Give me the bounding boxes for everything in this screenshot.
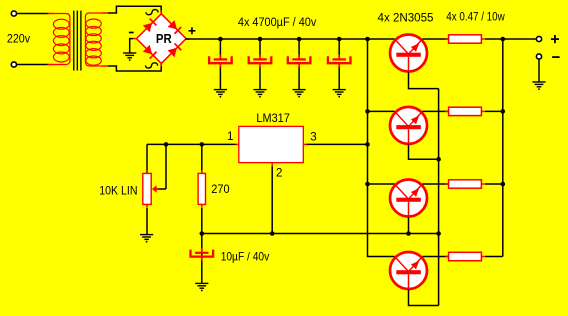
- pin 2 red stub: [271, 162, 273, 167]
- node junction output rail row1: [501, 37, 506, 42]
- wire branch to Q2 collector: [368, 110, 395, 112]
- svg-text:1: 1: [227, 130, 233, 143]
- wire pot top to pin1 wire: [146, 144, 148, 173]
- wire secondary bottom to bridge AC2: [108, 63, 161, 71]
- potentiometer RV1 10K LIN body: [143, 170, 151, 208]
- svg-text:3: 3: [310, 130, 316, 143]
- terminal J4 output minus: [536, 54, 541, 59]
- AC symbol near bridge top node: [146, 10, 158, 15]
- wire Q3 base: [408, 217, 410, 234]
- bridge diode D1 (left to top): [143, 19, 157, 33]
- bridge diode D4 (bottom to right): [168, 43, 182, 57]
- node junction cap C1 on rail: [218, 37, 223, 42]
- wire rail to C2: [259, 39, 261, 56]
- svg-text:220v: 220v: [7, 31, 30, 45]
- wire pot bottom to ground: [146, 208, 148, 235]
- node junction pin3 on bus: [365, 142, 370, 147]
- resistor R3 0.47 ohm: [445, 180, 485, 188]
- capacitor C1 4700uF: [209, 55, 232, 68]
- wire Q1 base: [409, 72, 439, 89]
- wire branch to Q3 collector: [368, 183, 395, 185]
- wire Q3 emitter to R3: [422, 183, 448, 185]
- label 4x 0.47 / 10w: [446, 10, 505, 24]
- node junction Q2 collector branch: [365, 109, 370, 114]
- svg-text:10K LIN: 10K LIN: [99, 184, 137, 198]
- svg-text:PR: PR: [156, 31, 172, 46]
- transistor Q1 2N3055: [390, 35, 427, 73]
- transformer TR1 core: [74, 11, 81, 71]
- svg-text:270: 270: [211, 182, 230, 196]
- transistor Q3 2N3055: [390, 180, 427, 218]
- bridge rectifier PR body: [137, 14, 187, 64]
- bridge lead stub top: [160, 11, 162, 15]
- label LM317: [256, 111, 289, 125]
- terminal J1 (mains input top): [11, 11, 16, 16]
- capacitor C2 4700uF: [249, 55, 272, 68]
- label output plus: [551, 35, 559, 43]
- transformer TR1 secondary winding: [85, 13, 108, 66]
- terminal J2 (mains input bottom): [11, 62, 16, 67]
- svg-text:4x 4700µF / 40v: 4x 4700µF / 40v: [238, 15, 317, 29]
- wire C3 to ground: [298, 68, 300, 90]
- transistor Q4 2N3055: [390, 252, 427, 290]
- label PR: [156, 31, 172, 46]
- resistor R1 0.47 ohm: [445, 35, 485, 43]
- capacitor C4 4700uF: [328, 55, 351, 68]
- svg-text:LM317: LM317: [256, 111, 289, 125]
- wire main positive rail: [186, 38, 395, 40]
- wire drive rail horizontal: [202, 233, 439, 235]
- svg-text:4x 0.47 / 10w: 4x 0.47 / 10w: [446, 10, 505, 24]
- wire Q2 emitter to R2: [422, 110, 448, 112]
- bridge lead stub bottom: [160, 63, 162, 67]
- label pin 3: [310, 130, 316, 143]
- node junction cap C4 on rail: [337, 37, 342, 42]
- wire Q4 emitter to R4: [422, 256, 448, 258]
- svg-text:10µF / 40v: 10µF / 40v: [221, 249, 270, 263]
- resistor R4 0.47 ohm: [445, 252, 485, 260]
- node junction Q2 base on bus: [436, 157, 441, 162]
- pin 3 red stub: [303, 143, 307, 145]
- node junction cap C3 on rail: [297, 37, 302, 42]
- wire pin1 to adjust network: [147, 143, 236, 145]
- resistor R5 270 body: [198, 170, 205, 208]
- wire rail to C4: [338, 39, 340, 56]
- wire secondary top to bridge AC1: [108, 6, 161, 14]
- label 220v: [7, 31, 30, 45]
- wire unregulated bus vertical: [368, 39, 395, 257]
- node junction output rail row3: [501, 182, 506, 187]
- wire R3 to output rail: [485, 183, 503, 185]
- label pin 2: [276, 166, 282, 179]
- transistor Q2 2N3055: [390, 107, 427, 145]
- node junction pin2 on drive rail: [270, 231, 275, 236]
- wire pin1 wire to R5: [201, 144, 203, 173]
- label 10K LIN: [99, 184, 137, 198]
- label 10uF / 40v: [221, 249, 270, 263]
- node junction Q3 collector branch: [365, 182, 370, 187]
- pin 1 red stub: [235, 143, 239, 145]
- svg-text:2: 2: [276, 166, 282, 179]
- wire rail to C1: [219, 39, 221, 56]
- ground below C5: [195, 283, 208, 290]
- wire C5 to ground: [201, 261, 203, 284]
- ground below C4: [333, 90, 346, 97]
- wire pin2 down to drive rail: [271, 167, 273, 234]
- label 4x 4700uF / 40v: [238, 15, 317, 29]
- wire bridge minus stub: [130, 39, 134, 53]
- node junction Q3 base on drive rail: [406, 231, 411, 236]
- label 270: [211, 182, 230, 196]
- wire Q2 base: [409, 144, 439, 159]
- capacitor C5 10uF: [191, 248, 214, 261]
- resistor R2 0.47 ohm: [445, 107, 485, 115]
- wire R4 to output rail: [485, 256, 503, 258]
- wire C2 to ground: [259, 68, 261, 90]
- label minus at bridge: [129, 32, 134, 34]
- svg-text:4x 2N3055: 4x 2N3055: [378, 11, 434, 25]
- wire R2 to output rail: [485, 110, 503, 112]
- regulator U1 LM317 body: [239, 126, 303, 162]
- node junction wiper on pin1 wire: [164, 142, 169, 147]
- transformer TR1 primary winding: [48, 14, 70, 65]
- wire pin3 to unregulated bus: [307, 143, 368, 145]
- ground below C3: [293, 90, 306, 97]
- label 4x 2N3055: [378, 11, 434, 25]
- wire Q1 emitter to R1: [422, 38, 448, 40]
- label pin 1: [227, 130, 233, 143]
- wire rail to C3: [298, 39, 300, 56]
- ground below C1: [214, 90, 227, 97]
- label output minus: [552, 56, 560, 58]
- label plus at bridge: [189, 27, 196, 34]
- ground below output minus: [532, 82, 545, 89]
- wire C4 to ground: [338, 68, 340, 90]
- wire R5 bottom to drive rail: [201, 208, 203, 234]
- node junction R5 top on pin1 wire: [200, 142, 205, 147]
- bridge diode D2 (top to right): [168, 20, 182, 34]
- wire drive rail to C5: [201, 234, 203, 259]
- wire R1 to output rail: [485, 38, 503, 40]
- AC symbol near bridge bottom node: [145, 63, 157, 68]
- wire J2 to transformer primary: [17, 64, 49, 66]
- wire Q4 base: [409, 289, 439, 305]
- ground at bridge minus: [123, 53, 136, 60]
- potentiometer RV1 wiper arrow and wire: [152, 144, 166, 192]
- bridge lead stub right: [186, 38, 190, 40]
- wire minus terminal to ground: [538, 59, 540, 82]
- node junction output rail row2: [501, 109, 506, 114]
- node junction left rail on top rail: [365, 37, 370, 42]
- wire output rail vertical: [502, 39, 504, 257]
- node junction cap C2 on rail: [258, 37, 263, 42]
- capacitor C3 4700uF: [288, 55, 311, 68]
- ground below potentiometer: [140, 235, 153, 242]
- wire base bus vertical: [438, 89, 440, 306]
- wire output rail to plus terminal: [503, 38, 536, 40]
- wire C1 to ground: [219, 68, 221, 90]
- ground below C2: [253, 90, 266, 97]
- terminal J3 output plus: [536, 36, 541, 41]
- wire J1 to transformer primary: [17, 13, 49, 15]
- bridge lead stub left: [133, 38, 137, 40]
- node junction R5/C5 on drive rail: [200, 231, 205, 236]
- node junction base bus on drive rail: [436, 231, 441, 236]
- bridge diode D3 (left to bottom): [143, 45, 157, 59]
